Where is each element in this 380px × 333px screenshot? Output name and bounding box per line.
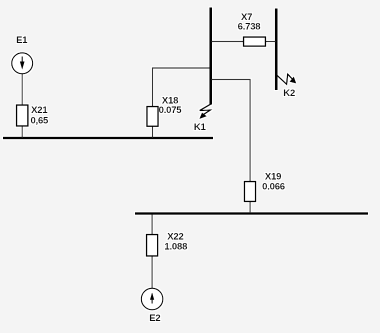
- label X22 value 1.088: [164, 231, 187, 252]
- svg-text:6.738: 6.738: [238, 22, 261, 33]
- svg-text:K1: K1: [194, 122, 207, 133]
- fault K1: [199, 104, 211, 119]
- label X7 value 6.738: [238, 12, 261, 33]
- wire X21 to busbar bottom-left: [21, 126, 23, 138]
- wire middle busbar to X19: [212, 80, 251, 182]
- label X19 value 0.066: [262, 172, 285, 193]
- svg-text:0.075: 0.075: [159, 105, 183, 116]
- label X18 value 0.075: [159, 95, 183, 116]
- source E2: [141, 288, 163, 310]
- wire X7 to right busbar: [266, 41, 276, 43]
- reactance X7: [244, 37, 266, 46]
- svg-text:X21: X21: [31, 105, 48, 116]
- svg-text:0.066: 0.066: [262, 181, 285, 192]
- busbar bottom-left: [3, 137, 213, 140]
- wire busbar bottom to X22: [151, 215, 153, 235]
- svg-text:0,65: 0,65: [30, 115, 49, 126]
- busbar middle vertical: [209, 8, 212, 105]
- svg-text:E2: E2: [149, 313, 160, 324]
- wire middle busbar to X7: [212, 41, 244, 43]
- svg-text:E1: E1: [16, 35, 28, 46]
- wire X18 top branch to middle busbar: [153, 68, 210, 107]
- svg-text:1.088: 1.088: [164, 241, 187, 252]
- reactance X18: [147, 107, 158, 127]
- source E1: [12, 53, 33, 74]
- fault K2: [276, 74, 296, 84]
- wire X22 to E2: [151, 256, 153, 288]
- wire X19 to busbar bottom: [249, 202, 251, 213]
- reactance X22: [147, 235, 158, 257]
- wire E1 to X21: [21, 74, 23, 105]
- busbar right vertical: [275, 9, 278, 91]
- busbar bottom: [135, 212, 368, 215]
- reactance X21: [17, 105, 28, 126]
- wire X18 bottom to busbar bottom-left: [152, 126, 154, 137]
- reactance X19: [244, 182, 255, 202]
- label X21 value 0,65: [30, 105, 49, 127]
- svg-text:K2: K2: [283, 88, 295, 99]
